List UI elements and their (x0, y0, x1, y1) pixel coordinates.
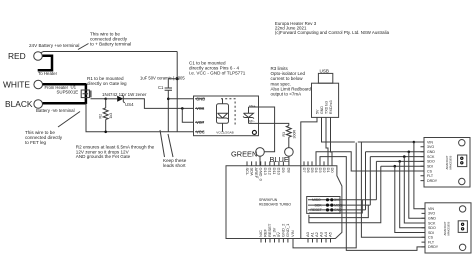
svg-text:TXD tx3: TXD tx3 (324, 101, 328, 114)
svg-text:D10: D10 (277, 168, 282, 176)
svg-text:R3: R3 (282, 132, 286, 137)
callout: this wire to FET leg (58, 112, 80, 128)
svg-text:GND: GND (320, 106, 324, 114)
svg-text:CS: CS (427, 169, 433, 173)
svg-text:directly on Gate leg: directly on Gate leg (87, 81, 127, 86)
wire: VF+ to GREEN (249, 107, 275, 152)
wire: GND to opto (168, 98, 193, 100)
node: R2 bottom junction (104, 131, 107, 134)
svg-text:RED: RED (8, 51, 26, 61)
svg-text:SDO: SDO (427, 160, 435, 164)
svg-text:AREF: AREF (254, 168, 259, 179)
svg-text:VIN: VIN (290, 230, 295, 237)
svg-text:3V0: 3V0 (334, 198, 340, 202)
wire: BLUE to D8 pin (288, 156, 290, 166)
svg-text:Battery -Ve terminal: Battery -Ve terminal (36, 108, 75, 113)
wire thick: WHITE to FET source (43, 83, 86, 86)
wire: USB GND to module VIN row (322, 117, 355, 142)
wire: GREEN to GND_0 pin (259, 156, 261, 166)
wire: VIN bus down to module2 (414, 142, 425, 209)
wire thick: BLACK to FET drain (43, 102, 86, 105)
svg-text:SDI: SDI (428, 231, 434, 235)
svg-text:SCL: SCL (245, 168, 250, 177)
node: C1 top junction (176, 77, 179, 80)
wire: VO7 loop (182, 108, 193, 122)
svg-text:BLACK: BLACK (5, 99, 33, 109)
svg-text:1k3: 1k3 (109, 113, 113, 119)
svg-text:R2: R2 (99, 114, 103, 119)
svg-text:1uF 50V ceramic (.a305: 1uF 50V ceramic (.a305 (140, 76, 185, 81)
resistor R3 300R (286, 126, 291, 138)
thermocouple module 2 (MAX31856) (425, 203, 471, 253)
wire: GND row (366, 151, 425, 153)
RedBoard bottom pin labels (258, 223, 333, 237)
svg-text:(c)Forward Computing and Contr: (c)Forward Computing and Control Pty. Lt… (275, 30, 390, 35)
ISP header box (307, 197, 340, 214)
svg-text:SDI: SDI (427, 165, 433, 169)
svg-text:RXD/rx3: RXD/rx3 (329, 100, 333, 114)
svg-text:SCK: SCK (315, 203, 323, 207)
wire: D2 riser to DRDY2 (320, 157, 425, 251)
wire 24V+ top (41, 52, 178, 53)
svg-text:D11: D11 (272, 168, 277, 176)
node: gate junction (104, 98, 107, 101)
svg-text:FLT: FLT (428, 240, 435, 244)
wire: USB TXD to D1 (326, 117, 328, 165)
svg-text:GND: GND (428, 217, 436, 221)
diode: opto zener output (217, 113, 228, 119)
svg-text:USB: USB (320, 69, 329, 74)
svg-text:D12: D12 (268, 168, 273, 176)
wire thick: RED to heater (38, 56, 52, 70)
svg-text:SPARKFUN: SPARKFUN (259, 198, 278, 202)
svg-text:D9: D9 (281, 168, 286, 174)
wire: ISP staircase links (309, 200, 362, 213)
svg-text:DRDY: DRDY (428, 245, 439, 249)
svg-text:RESET: RESET (311, 208, 322, 212)
resistor R2 1k3 (105, 99, 107, 132)
wire: FET leg down (86, 103, 194, 132)
wire: SDI row (381, 165, 424, 167)
svg-text:VIN: VIN (428, 207, 434, 211)
svg-text:GND: GND (427, 150, 435, 154)
wire: 24V down to VCC pin (176, 52, 178, 132)
svg-text:24V Battery +ve terminal: 24V Battery +ve terminal (29, 43, 79, 48)
wire: R3 to BLUE (288, 137, 290, 147)
svg-text:CS: CS (428, 236, 434, 240)
svg-text:D0: D0 (330, 168, 335, 174)
svg-text:MAX31856: MAX31856 (449, 155, 453, 169)
svg-text:3VO: 3VO (427, 145, 434, 149)
svg-text:MAX31856: MAX31856 (447, 221, 451, 235)
node: pin1 marker circle (252, 130, 256, 134)
RedBoard top pin stubs (247, 161, 283, 165)
wire: USB RXD to D0 (331, 117, 333, 165)
svg-text:SDA: SDA (249, 168, 254, 177)
wire: dashed internal link (221, 99, 235, 126)
callout: keep these leads short (160, 130, 173, 157)
svg-text:5V: 5V (315, 109, 319, 114)
node: VIN bus junction (413, 141, 416, 144)
svg-text:To Heater: To Heater (38, 71, 58, 76)
wire: VF- to R3 (249, 123, 289, 125)
wire: zener to VO8 (123, 99, 193, 109)
svg-text:DRDY: DRDY (427, 179, 438, 183)
wire: USB 5V down-left long (301, 117, 317, 238)
svg-text:SDO: SDO (428, 226, 436, 230)
RedBoard top pin labels (245, 168, 335, 182)
node: C1 bottom / GND junction (167, 98, 170, 101)
svg-text:i.e. VCC - GND of TLP5771: i.e. VCC - GND of TLP5771 (189, 71, 246, 76)
RedBoard Turbo outline (226, 166, 342, 239)
svg-text:output to <7mA: output to <7mA (271, 92, 302, 97)
svg-text:SCK: SCK (427, 155, 435, 159)
svg-text:REDBOARD TURBO: REDBOARD TURBO (259, 203, 291, 207)
callout: this wire to + battery terminal (78, 44, 89, 50)
svg-text:leads short: leads short (163, 163, 186, 168)
wire: VIN pin loop to riser (293, 143, 356, 248)
wire: FET gate (91, 97, 106, 100)
svg-text:A5: A5 (328, 231, 333, 237)
svg-text:GREEN: GREEN (231, 150, 257, 159)
svg-text:to + Battery terminal: to + Battery terminal (90, 42, 131, 47)
svg-text:VCC1/2GAB: VCC1/2GAB (216, 131, 233, 135)
opto inner output box (217, 104, 229, 124)
svg-text:MISO: MISO (312, 198, 321, 202)
svg-text:300R: 300R (292, 130, 296, 139)
svg-text:VIN: VIN (427, 140, 433, 144)
svg-text:3VO: 3VO (428, 212, 435, 216)
svg-text:SUP5001E: SUP5001E (57, 90, 79, 95)
ISP pin dots (326, 198, 329, 201)
wire: SDO row (376, 160, 424, 162)
svg-text:to FET leg: to FET leg (25, 140, 47, 145)
wire: VIN row to module1 (414, 141, 424, 143)
svg-text:GND_0: GND_0 (259, 168, 264, 182)
svg-text:AND grounds the Fet Gate: AND grounds the Fet Gate (76, 154, 131, 159)
op-amp/optocoupler U5 TLP5771 box (194, 96, 259, 136)
thermocouple module 1 (MAX31856) (424, 138, 470, 188)
RedBoard bottom pin stubs (261, 239, 293, 243)
svg-text:FLT: FLT (427, 174, 434, 178)
wire: SCK row (370, 156, 424, 158)
svg-text:D8: D8 (287, 168, 292, 174)
svg-text:US4: US4 (125, 102, 134, 107)
wire: CS2 riser and row (361, 142, 425, 237)
svg-text:WHITE: WHITE (3, 80, 30, 90)
svg-text:D13: D13 (263, 168, 268, 176)
node: VO8/VO7 junction (181, 107, 184, 110)
svg-text:SCK: SCK (428, 221, 436, 225)
svg-text:C1: C1 (158, 85, 164, 90)
wire: D3 riser to CS1 (316, 152, 424, 171)
svg-text:1N4742 12V 1W zener: 1N4742 12V 1W zener (102, 92, 147, 97)
